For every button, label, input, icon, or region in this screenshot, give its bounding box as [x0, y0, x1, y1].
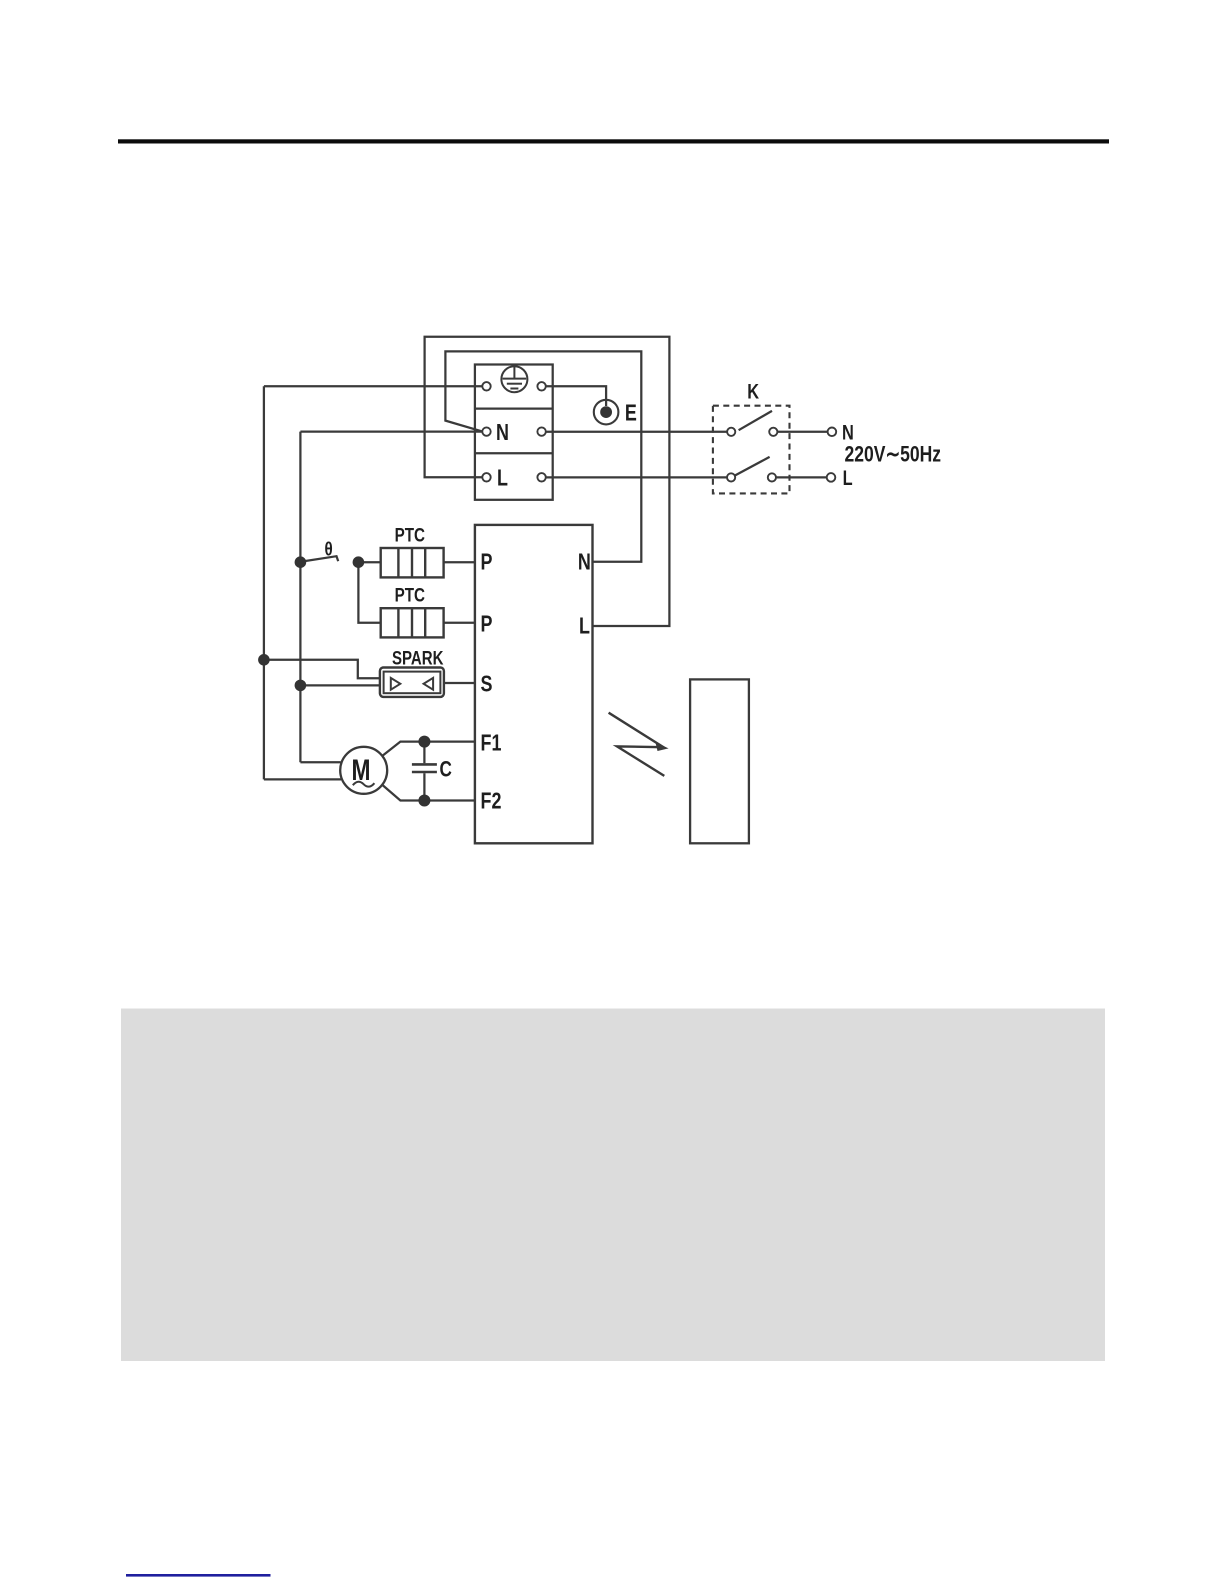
terminal block row divider 1 — [475, 407, 553, 409]
svg-text:K: K — [747, 379, 759, 402]
switch K contact L-left — [727, 473, 735, 481]
wire motor upper lead — [382, 742, 475, 756]
svg-text:L: L — [843, 466, 853, 489]
wire N row left to second rail — [300, 430, 482, 432]
wire inner N loop (terminal N left to control box N pin) — [445, 351, 641, 561]
wire switch K to mains N — [777, 431, 827, 433]
svg-text:N: N — [496, 420, 509, 446]
thermal switch theta blade — [303, 556, 338, 561]
wire switch K to mains L — [776, 476, 827, 478]
terminal circle N-left — [482, 427, 490, 435]
svg-text:P: P — [481, 611, 493, 637]
wire second rail to motor — [300, 761, 340, 763]
mains terminal N — [828, 428, 837, 437]
mains terminal L — [827, 473, 836, 482]
svg-text:P: P — [481, 549, 493, 575]
earth electrode E symbol — [594, 400, 619, 425]
motor AC tilde — [353, 782, 375, 787]
svg-text:220V∼50Hz: 220V∼50Hz — [845, 442, 942, 467]
junction dot PTC branch — [353, 556, 365, 568]
lightning flash symbol — [609, 713, 665, 776]
junction dot second rail / spark — [295, 680, 307, 692]
terminal circle L-right — [537, 473, 545, 481]
wire PTC2 to pin P — [444, 622, 475, 624]
spark gap electrode left — [391, 678, 401, 690]
terminal block TB — [475, 365, 553, 500]
wire left rail to motor — [264, 778, 341, 780]
switch K pole L blade — [735, 457, 770, 476]
resistor PTC2 body — [381, 608, 444, 637]
wire earth row right to E electrode — [546, 386, 606, 406]
junction dot thermal switch left — [295, 556, 307, 568]
wire earth row left to left rail — [264, 385, 483, 387]
switch K pole N blade — [739, 411, 772, 430]
wire second rail vertical — [299, 432, 301, 763]
svg-text:PTC: PTC — [395, 584, 426, 606]
junction dot capacitor F1 — [418, 736, 430, 748]
switch K dashed enclosure — [713, 406, 790, 494]
oven lamp / burner box — [690, 679, 749, 843]
wire motor lower lead — [382, 785, 475, 801]
spark igniter outer box — [380, 668, 444, 697]
wire junction drop to PTC2 — [358, 562, 380, 623]
svg-text:S: S — [481, 671, 493, 697]
terminal circle N-right — [537, 427, 545, 435]
motor M circle — [340, 747, 387, 794]
svg-text:SPARK: SPARK — [392, 647, 444, 669]
svg-text:PTC: PTC — [395, 524, 426, 546]
svg-text:C: C — [440, 758, 452, 783]
svg-text:N: N — [842, 420, 854, 443]
earth symbol inside terminal block — [501, 365, 527, 393]
wire second rail to spark igniter — [300, 684, 380, 686]
terminal circle earth-right — [537, 382, 545, 390]
svg-text:F1: F1 — [481, 730, 502, 756]
switch K contact N-right — [769, 428, 777, 436]
page header rule — [118, 139, 1109, 143]
svg-text:N: N — [578, 549, 591, 575]
control module box — [475, 525, 593, 843]
svg-text:F2: F2 — [481, 789, 502, 815]
switch K contact L-right — [768, 473, 776, 481]
svg-text:L: L — [579, 613, 590, 639]
junction dot capacitor F2 — [418, 795, 430, 807]
switch K contact N-left — [727, 428, 735, 436]
svg-text:E: E — [625, 400, 637, 426]
wire outer L loop (terminal L left to control box L pin) — [425, 337, 670, 626]
wire left rail (earth rail) vertical — [263, 386, 265, 779]
terminal circle earth-left — [482, 382, 490, 390]
spark igniter inner box — [384, 672, 441, 694]
spark gap electrode right — [424, 678, 434, 690]
wire earth rail jog to spark igniter — [264, 660, 380, 679]
junction dot earth rail / spark — [258, 654, 270, 666]
grey note box — [121, 1009, 1105, 1362]
wire thermal switch to PTC1 — [358, 561, 380, 563]
resistor PTC1 body — [381, 548, 444, 577]
svg-text:θ: θ — [325, 538, 333, 560]
capacitor C top lead — [423, 742, 425, 764]
wire terminal L right to switch K — [546, 476, 727, 478]
wire spark igniter to pin S — [444, 682, 475, 684]
capacitor C bottom lead — [423, 773, 425, 800]
terminal circle L-left — [482, 473, 490, 481]
terminal block row divider 2 — [475, 452, 553, 454]
wire PTC1 to pin P — [444, 561, 475, 563]
capacitor C plates — [412, 764, 437, 772]
svg-text:L: L — [497, 465, 508, 491]
blue footer link rule — [126, 1574, 271, 1577]
wire terminal N right to switch K — [546, 431, 727, 433]
